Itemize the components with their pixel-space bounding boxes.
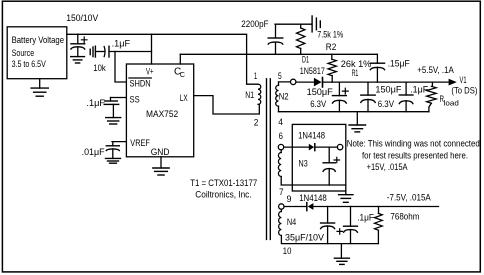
svg-text:2200pF: 2200pF <box>241 18 268 29</box>
svg-text:R1: R1 <box>352 67 359 78</box>
svg-text:V1: V1 <box>460 74 467 85</box>
svg-text:N1: N1 <box>245 89 254 100</box>
svg-text:N4: N4 <box>287 216 296 227</box>
svg-text:2: 2 <box>254 116 259 127</box>
svg-text:5: 5 <box>278 70 282 81</box>
svg-text:7.5k 1%: 7.5k 1% <box>317 29 343 40</box>
svg-text:.1μF: .1μF <box>112 38 131 49</box>
svg-text:+5.5V, .1A: +5.5V, .1A <box>417 64 454 75</box>
svg-text:Source: Source <box>12 47 35 58</box>
svg-text:4: 4 <box>278 116 283 127</box>
svg-text:9: 9 <box>287 193 292 204</box>
svg-text:R2: R2 <box>326 41 337 52</box>
svg-text:Battery Voltage: Battery Voltage <box>12 34 64 45</box>
svg-text:10: 10 <box>283 245 292 256</box>
svg-text:3.5 to 6.5V: 3.5 to 6.5V <box>12 58 47 69</box>
svg-text:1N4148: 1N4148 <box>298 129 325 140</box>
svg-text:10k: 10k <box>93 62 106 73</box>
svg-text:150/10V: 150/10V <box>66 12 99 23</box>
svg-text:1N4148: 1N4148 <box>299 192 327 203</box>
svg-text:.15μF: .15μF <box>388 57 410 68</box>
svg-text:load: load <box>444 99 459 108</box>
svg-text:SS: SS <box>130 93 140 104</box>
svg-text:for test results presented her: for test results presented here. <box>362 149 468 160</box>
svg-text:T1 = CTX01-13177: T1 = CTX01-13177 <box>190 177 257 188</box>
svg-text:768ohm: 768ohm <box>390 211 419 222</box>
svg-text:D1: D1 <box>302 53 309 64</box>
svg-text:6.3V: 6.3V <box>378 98 395 109</box>
svg-text:+15V, .015A: +15V, .015A <box>367 161 409 172</box>
svg-text:(To DS): (To DS) <box>451 85 477 96</box>
svg-text:1: 1 <box>254 70 257 81</box>
svg-text:35μF/10V: 35μF/10V <box>285 231 325 242</box>
svg-text:.1μF: .1μF <box>86 97 105 108</box>
svg-text:LX: LX <box>180 92 188 103</box>
svg-text:1N5817: 1N5817 <box>300 65 325 76</box>
svg-text:MAX752: MAX752 <box>146 108 178 119</box>
svg-text:.1μF: .1μF <box>410 84 428 95</box>
svg-text:V+: V+ <box>146 65 154 76</box>
svg-text:150μF: 150μF <box>375 83 401 94</box>
svg-text:6: 6 <box>279 130 283 141</box>
svg-text:VREF: VREF <box>130 137 150 148</box>
svg-text:GND: GND <box>151 146 170 157</box>
svg-text:.01μF: .01μF <box>82 146 105 157</box>
svg-text:7: 7 <box>279 186 284 197</box>
svg-text:.1μF: .1μF <box>357 212 374 223</box>
svg-text:SHDN: SHDN <box>130 77 151 88</box>
svg-text:Note: This winding was not con: Note: This winding was not connected <box>347 138 480 149</box>
svg-text:N2: N2 <box>279 91 289 102</box>
svg-text:N3: N3 <box>299 158 308 169</box>
svg-text:150μF: 150μF <box>307 86 333 97</box>
svg-text:-7.5V, .015A: -7.5V, .015A <box>387 192 432 203</box>
svg-text:6.3V: 6.3V <box>310 98 327 109</box>
svg-text:Coiltronics, Inc.: Coiltronics, Inc. <box>195 189 251 200</box>
svg-text:C: C <box>180 72 185 79</box>
